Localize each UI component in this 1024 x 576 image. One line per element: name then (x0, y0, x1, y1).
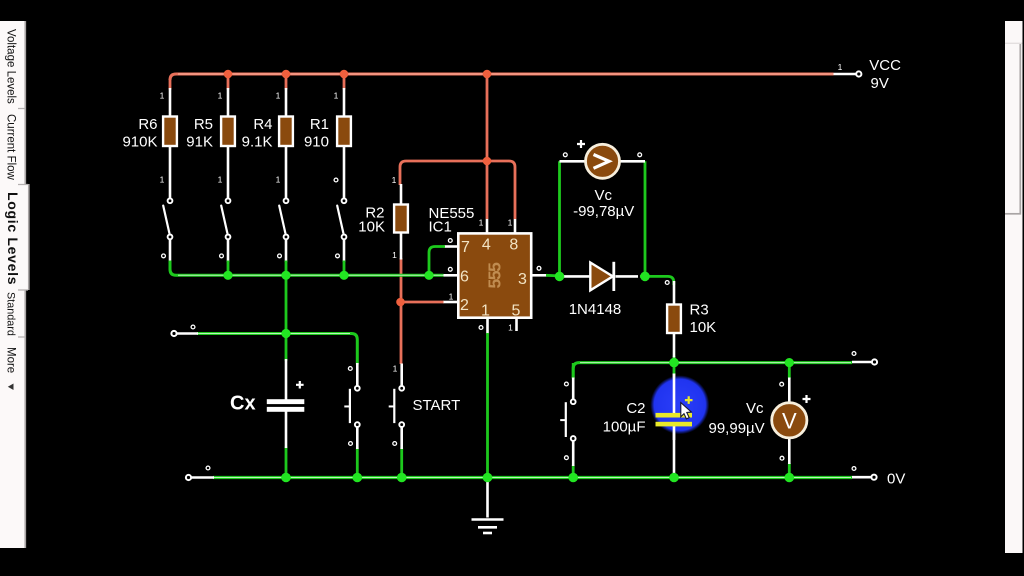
svg-text:4: 4 (482, 237, 491, 254)
svg-text:9.1K: 9.1K (242, 134, 273, 151)
svg-text:1: 1 (479, 218, 484, 228)
green junction dot diode cathode (640, 272, 650, 282)
resistor R3 10K (667, 302, 716, 337)
svg-text:5: 5 (512, 303, 521, 320)
svg-text:VCC: VCC (869, 57, 901, 74)
svg-text:V: V (782, 409, 797, 434)
wire white ground drop (486, 478, 489, 518)
svg-text:1N4148: 1N4148 (569, 301, 622, 318)
wire white voltmeter2 top (788, 378, 791, 404)
wire white resistor bottoms to switches (170, 145, 344, 198)
toggle switch S3 (open) (279, 198, 288, 239)
selection highlight around C2 (650, 375, 709, 434)
logic marker switch A top (348, 367, 352, 371)
wire white voltmeter2 bottom (788, 438, 791, 464)
wire white START top (400, 364, 403, 386)
wire red trigger node down to START switch (400, 302, 403, 364)
svg-text:91K: 91K (186, 134, 213, 151)
label Vc 99,99uV (709, 400, 765, 437)
wire white middle bus right stub (852, 361, 871, 364)
wire white switch C bottom (572, 441, 575, 466)
resistor R2 10K (358, 205, 408, 236)
logic markers switch bottoms (162, 254, 340, 258)
svg-text:1: 1 (218, 175, 223, 185)
svg-text:R3: R3 (690, 302, 709, 319)
svg-text:1: 1 (838, 62, 843, 72)
wire green switch drops to bus (228, 261, 344, 276)
green junction dots on threshold bus (223, 271, 433, 280)
logic marker pin 1 (479, 326, 483, 330)
resistor R1 910 (304, 116, 351, 151)
svg-text:1: 1 (334, 91, 339, 101)
wire white resistor tops (170, 88, 344, 117)
voltmeter M1 plus mark (577, 140, 585, 148)
logic marker pin 7 (448, 239, 452, 243)
terminal Cx bus left (171, 325, 195, 336)
wire green bottom bus (0V) (213, 476, 852, 479)
svg-text:1: 1 (392, 175, 397, 185)
wire green voltmeter2 bottom stub (788, 463, 791, 478)
toggle switch S4 (open) (337, 198, 346, 239)
wire red stub column R4 (285, 74, 288, 90)
voltmeter M2 plus mark (803, 395, 811, 403)
wire white pin 3 stub (531, 274, 547, 277)
wire green bus drop to Cx bus (285, 275, 288, 333)
terminal VCC (838, 57, 902, 92)
wire green switch C bottom (572, 465, 575, 478)
svg-text:9V: 9V (871, 75, 889, 92)
capacitor Cx (267, 399, 305, 412)
wire white VCC terminal stub (834, 73, 856, 76)
logic marker meter1 right (638, 153, 642, 157)
terminal 0V bus left (186, 466, 210, 480)
wire white C2 upper (over highlight) (673, 374, 676, 414)
voltmeter M1 Vc (586, 144, 620, 178)
terminal 0V right (852, 467, 905, 488)
push switch START (389, 386, 404, 427)
wire green pin 3 to diode (546, 274, 560, 277)
wire red branch to R2 and pin 8 (400, 161, 515, 219)
capacitor C2 100uF (656, 413, 693, 427)
wire white R2 bottom (400, 232, 403, 260)
svg-text:6: 6 (460, 269, 469, 286)
wire white pin 7 stub (444, 245, 459, 248)
wire green Cx column upper (285, 334, 288, 362)
wire red trigger node to pin 2 (400, 301, 444, 304)
voltmeter M2 Vc (772, 403, 807, 438)
push switch (discharge) (560, 399, 575, 441)
diode D1 1N4148 (569, 262, 622, 318)
wire white switch C top (572, 378, 575, 400)
logic marker switch C top (565, 382, 569, 386)
svg-text:Logic Levels: Logic Levels (5, 192, 21, 285)
svg-text:1: 1 (481, 303, 490, 320)
logic marker switch C bottom (565, 456, 569, 460)
svg-text:1: 1 (508, 218, 513, 228)
wire white meter1 right lead (620, 160, 646, 163)
wire white 0V bus right stub (852, 476, 871, 479)
capacitor C2 plus mark (685, 396, 693, 404)
svg-text:1: 1 (160, 175, 165, 185)
terminal middle bus right (852, 352, 877, 365)
svg-text:Cx: Cx (230, 393, 256, 415)
wire green branch to pin 7 (429, 247, 445, 276)
mouse cursor (681, 403, 692, 419)
svg-text:0V: 0V (887, 471, 905, 488)
svg-text:More: More (5, 347, 17, 373)
svg-text:Vc: Vc (595, 187, 613, 204)
green junction dot voltmeter2 top (785, 358, 794, 367)
wire green Cx column lower (285, 447, 288, 478)
red junction dot at IC supply branch (483, 157, 492, 166)
svg-text:Voltage Levels: Voltage Levels (5, 29, 17, 104)
wire white 0V bus left stub (191, 476, 214, 479)
green junction dot diode anode (555, 272, 565, 282)
wire white switch A bottom (356, 427, 359, 449)
svg-text:3: 3 (518, 271, 527, 288)
svg-text:Current Flow: Current Flow (5, 114, 17, 181)
wire green Cx bus (197, 334, 357, 365)
svg-text:1: 1 (392, 250, 397, 260)
green junction dot R3-C2 node (669, 358, 679, 368)
green junction dot Cx bus (281, 329, 290, 338)
wire red stub column R1 (343, 74, 346, 90)
svg-text:Standard: Standard (5, 292, 17, 336)
op-amp timer IC1 NE555 body (458, 233, 531, 317)
wire green voltmeter right leg (644, 161, 647, 276)
svg-text:-99,78µV: -99,78µV (573, 203, 634, 220)
wire white pin 6 stub (444, 274, 459, 277)
svg-text:10K: 10K (690, 319, 717, 336)
wire green START bottom (400, 448, 403, 478)
red junction dot at trigger node (396, 298, 405, 307)
wire green diode to R3 corner (640, 276, 674, 285)
svg-text:555: 555 (485, 262, 505, 289)
svg-text:910: 910 (304, 134, 329, 151)
wire white R2 top (400, 184, 403, 205)
wire green R3 bottom stub (673, 356, 676, 363)
wire red R2 bottom to trigger node (400, 258, 403, 303)
wire white pin 2 stub (444, 301, 459, 304)
wire white pin 8 stub (514, 219, 517, 234)
wire VCC top rail (170, 74, 834, 80)
logic marker voltmeter2 bottom (780, 456, 784, 460)
logic marker pin 6 (448, 267, 452, 271)
wire green voltmeter left leg (558, 161, 561, 276)
toggle switch S2 (open) (221, 198, 230, 239)
logic marker switch A bottom (349, 442, 353, 446)
wire green switch C top (572, 363, 575, 379)
logic markers resistor bottoms (160, 175, 338, 185)
label C2 100uF (603, 400, 646, 436)
wire white R3 bottom (673, 332, 676, 358)
capacitor Cx plus mark (296, 381, 304, 389)
svg-text:START: START (413, 397, 461, 414)
svg-text:1: 1 (218, 91, 223, 101)
svg-text:910K: 910K (122, 134, 157, 151)
svg-text:R4: R4 (253, 116, 272, 133)
logic marker meter1 left (563, 153, 567, 157)
svg-text:R6: R6 (138, 116, 157, 133)
logic markers resistor tops (160, 91, 339, 101)
label NE555 IC1 (429, 205, 475, 236)
wire white Cx bottom (285, 411, 288, 448)
wire red VCC drop to IC (486, 74, 489, 219)
svg-text:8: 8 (509, 237, 518, 254)
logic marker pin 3 (537, 266, 541, 270)
svg-text:IC1: IC1 (429, 219, 452, 236)
svg-text:7: 7 (461, 239, 470, 256)
wire green bus to 555 (threshold bus) (170, 261, 444, 276)
wire white diode anode (562, 275, 590, 278)
wire green C2 top stub (673, 363, 676, 375)
wire green switch A bottom (356, 448, 359, 478)
red junction dots on VCC rail (224, 70, 492, 79)
svg-text:C2: C2 (626, 400, 645, 417)
wire white Cx top (285, 359, 288, 400)
wire white R3 top (673, 281, 676, 305)
right scrollbar (1005, 21, 1023, 553)
logic marker START bottom (393, 442, 397, 446)
svg-text:1: 1 (160, 91, 165, 101)
svg-text:10K: 10K (358, 219, 385, 236)
svg-text:1: 1 (508, 323, 513, 333)
wire red stub column R5 (227, 74, 230, 90)
wire green pin 1 down to ground bus (486, 333, 489, 478)
svg-text:1: 1 (393, 364, 398, 374)
wire white C2 upper (673, 374, 676, 414)
svg-text:1: 1 (276, 175, 281, 185)
wire green voltmeter2 top stub (788, 363, 791, 379)
wire white diode cathode to node (616, 275, 639, 278)
wire red stub column R6 (169, 79, 172, 90)
wire white pin 4 stub (486, 219, 489, 234)
wire white START bottom (400, 427, 403, 449)
wire green middle bus (0V sense) (573, 363, 852, 379)
resistor R4 9.1K (242, 116, 293, 151)
left tab strip panel (0, 21, 29, 548)
push switch (reset) (344, 386, 359, 427)
logic marker R3 top (665, 281, 669, 285)
resistor R5 91K (186, 116, 235, 151)
svg-text:R5: R5 (194, 116, 213, 133)
wire white pin 1 stub (486, 318, 489, 335)
wire white switch A top (356, 363, 359, 386)
resistor R6 910K (122, 116, 176, 151)
green junction dots on 0V bus (281, 473, 794, 483)
svg-text:99,99µV: 99,99µV (709, 420, 765, 437)
svg-text:1: 1 (276, 91, 281, 101)
svg-text:2: 2 (460, 297, 469, 314)
logic marker voltmeter2 top (780, 382, 784, 386)
wire white pin 5 stub (515, 318, 518, 332)
label Vc -99,78uV (573, 187, 634, 220)
wire white C2 lower (over highlight) (673, 426, 676, 441)
tab More with arrow (5, 347, 17, 390)
wire white meter1 left lead (560, 160, 586, 163)
wire white Cx bus left stub (177, 332, 199, 335)
wire white switch bottoms (170, 239, 344, 262)
svg-text:Vc: Vc (746, 400, 764, 417)
wire white C2 lower (673, 426, 676, 476)
svg-text:R1: R1 (310, 116, 329, 133)
svg-text:100µF: 100µF (603, 419, 646, 436)
svg-text:1: 1 (449, 292, 454, 302)
ground symbol (472, 520, 504, 534)
toggle switch S1 (open) (163, 198, 172, 239)
